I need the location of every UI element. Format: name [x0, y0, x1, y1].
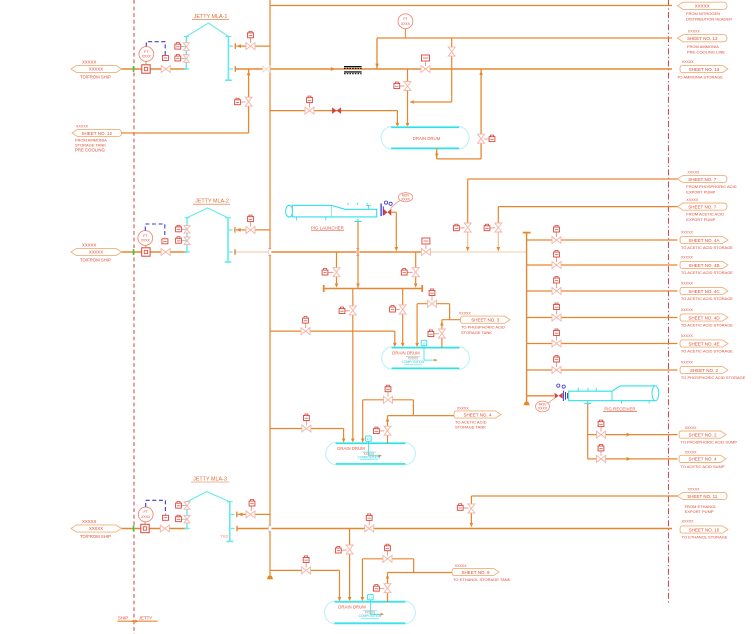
svg-text:SHEET NO. 4: SHEET NO. 4: [464, 412, 492, 417]
svg-text:TO/FROM SHIP: TO/FROM SHIP: [80, 257, 111, 262]
svg-text:XXXXX: XXXXX: [688, 30, 701, 34]
svg-text:XXXXX: XXXXX: [455, 564, 468, 568]
svg-text:SHEET NO. 2: SHEET NO. 2: [689, 432, 717, 437]
svg-text:TO ETHANOL STORAGE TANK: TO ETHANOL STORAGE TANK: [453, 577, 511, 582]
svg-text:XXXXX: XXXXX: [681, 334, 694, 338]
svg-text:DRAIN DRUM: DRAIN DRUM: [337, 446, 365, 451]
svg-text:EXPORT PUMP: EXPORT PUMP: [686, 189, 715, 194]
svg-text:XXXX: XXXX: [142, 55, 152, 59]
svg-text:XXXXX: XXXXX: [695, 4, 710, 9]
svg-text:TO ETHANOL STORAGE: TO ETHANOL STORAGE: [682, 534, 728, 539]
svg-text:TO ACETIC ACID STORAGE: TO ACETIC ACID STORAGE: [681, 296, 733, 301]
svg-text:XXXXX: XXXXX: [685, 426, 698, 430]
svg-text:SHEET NO. 7: SHEET NO. 7: [688, 204, 716, 209]
svg-text:FROM NITROGEN: FROM NITROGEN: [686, 11, 720, 16]
svg-text:DISTRIBUTION HEADER: DISTRIBUTION HEADER: [686, 17, 732, 22]
svg-text:SHEET NO. 9: SHEET NO. 9: [462, 570, 490, 575]
svg-text:FROM PHOSPHORIC ACID: FROM PHOSPHORIC ACID: [686, 184, 736, 189]
svg-text:SHEET NO. 2: SHEET NO. 2: [690, 368, 718, 373]
svg-text:SHEET NO. 4C: SHEET NO. 4C: [688, 289, 720, 294]
svg-text:COMPOSITION: COMPOSITION: [402, 360, 425, 364]
svg-text:XXXX: XXXX: [401, 197, 411, 201]
svg-text:TO PHOSPHORIC ACID STORAGE: TO PHOSPHORIC ACID STORAGE: [681, 375, 746, 380]
svg-text:PRE COOLING: PRE COOLING: [75, 148, 106, 153]
svg-text:TO ACETIC ACID SUMP: TO ACETIC ACID SUMP: [680, 464, 724, 469]
svg-text:SHEET NO. 12: SHEET NO. 12: [82, 131, 113, 136]
svg-text:COMPOSITION: COMPOSITION: [359, 614, 382, 618]
svg-text:SHEET NO. 3: SHEET NO. 3: [471, 318, 499, 323]
svg-text:SHEET NO. 4: SHEET NO. 4: [689, 457, 717, 462]
svg-text:EXPORT PUMP: EXPORT PUMP: [686, 217, 715, 222]
svg-text:LI: LI: [423, 341, 426, 345]
svg-text:XXXXX: XXXXX: [82, 60, 96, 65]
svg-text:TO ACETIC ACID STORAGE: TO ACETIC ACID STORAGE: [681, 349, 733, 354]
svg-text:XXXXX: XXXXX: [459, 312, 472, 316]
svg-text:XXXXX: XXXXX: [82, 243, 96, 248]
svg-text:SHIP: SHIP: [118, 616, 128, 621]
svg-text:XXXXX: XXXXX: [682, 60, 695, 64]
svg-text:XXXXX: XXXXX: [681, 230, 694, 234]
svg-text:SHEET NO. 4D: SHEET NO. 4D: [688, 315, 720, 320]
svg-text:FROM ACETIC ACID: FROM ACETIC ACID: [686, 212, 724, 217]
svg-text:SHEET NO. 11: SHEET NO. 11: [687, 494, 718, 499]
svg-text:XXXXX: XXXXX: [82, 519, 96, 524]
svg-text:TO ACETIC ACID STORAGE: TO ACETIC ACID STORAGE: [681, 270, 733, 275]
svg-text:XXXXX: XXXXX: [76, 125, 89, 129]
svg-text:TO ACETIC ACID STORAGE: TO ACETIC ACID STORAGE: [681, 245, 733, 250]
svg-text:DRAIN DRUM: DRAIN DRUM: [338, 605, 366, 610]
svg-text:TBD: TBD: [221, 534, 229, 539]
svg-text:SHEET NO. 4A: SHEET NO. 4A: [689, 238, 720, 243]
svg-text:DRAIN DRUM: DRAIN DRUM: [392, 351, 420, 356]
svg-text:TO/FROM SHIP: TO/FROM SHIP: [80, 74, 111, 79]
svg-text:PRE-COOLING LINE: PRE-COOLING LINE: [687, 50, 725, 55]
svg-text:SHEET NO. 13: SHEET NO. 13: [687, 36, 718, 41]
svg-text:XXXXX: XXXXX: [685, 451, 698, 455]
svg-text:XXXXX: XXXXX: [681, 281, 694, 285]
svg-text:XXXXX: XXXXX: [687, 171, 700, 175]
svg-text:XXXXX: XXXXX: [89, 526, 103, 531]
svg-text:JETTY MLA-1: JETTY MLA-1: [194, 14, 228, 20]
svg-text:SHEET NO. 4B: SHEET NO. 4B: [689, 263, 720, 268]
svg-text:SHEET NO. 4E: SHEET NO. 4E: [689, 341, 720, 346]
svg-text:STORAGE TANK: STORAGE TANK: [461, 330, 492, 335]
svg-text:XXXXX: XXXXX: [681, 255, 694, 259]
svg-text:XXXXX: XXXXX: [686, 198, 699, 202]
svg-text:TO/FROM SHIP: TO/FROM SHIP: [80, 534, 111, 539]
svg-text:FROM AMMONIA: FROM AMMONIA: [687, 44, 719, 49]
svg-text:STORAGE TANK: STORAGE TANK: [455, 425, 486, 430]
svg-text:XXXXX: XXXXX: [688, 488, 701, 492]
svg-text:TO PHOSPHORIC ACID SUMP: TO PHOSPHORIC ACID SUMP: [680, 440, 737, 445]
svg-text:XXXXX: XXXXX: [89, 67, 103, 72]
svg-text:LI: LI: [369, 596, 372, 600]
svg-text:JETTY MLA-3: JETTY MLA-3: [193, 476, 227, 482]
svg-text:DRAIN DRUM: DRAIN DRUM: [413, 136, 441, 141]
svg-text:EXPORT PUMP: EXPORT PUMP: [685, 509, 714, 514]
svg-text:TO ACETIC ACID STORAGE: TO ACETIC ACID STORAGE: [681, 323, 733, 328]
svg-text:XXXX: XXXX: [538, 407, 548, 411]
svg-text:SHEET NO. 13: SHEET NO. 13: [689, 67, 720, 72]
svg-text:PIG LAUNCHER: PIG LAUNCHER: [311, 225, 344, 230]
svg-text:COMPOSITION: COMPOSITION: [358, 456, 381, 460]
svg-text:XXXXX: XXXXX: [89, 250, 103, 255]
svg-text:FROM ETHANOL: FROM ETHANOL: [685, 504, 718, 509]
svg-text:XXXX: XXXX: [401, 22, 411, 26]
svg-text:XXXXX: XXXXX: [682, 519, 695, 523]
svg-text:XXXX: XXXX: [141, 515, 151, 519]
svg-text:LI: LI: [367, 437, 370, 441]
svg-text:XXXX: XXXX: [141, 239, 151, 243]
svg-text:SHEET NO. 10: SHEET NO. 10: [689, 527, 720, 532]
svg-text:TO AMMONIA STORAGE: TO AMMONIA STORAGE: [677, 75, 723, 80]
svg-text:SHEET NO. 7: SHEET NO. 7: [688, 177, 716, 182]
svg-text:XXXXX: XXXXX: [457, 406, 470, 410]
svg-text:XXXXX: XXXXX: [681, 360, 694, 364]
svg-text:JETTY: JETTY: [139, 616, 152, 621]
svg-text:XXXXX: XXXXX: [681, 308, 694, 312]
svg-text:JETTY MLA-2: JETTY MLA-2: [195, 199, 229, 205]
svg-text:PIG RECEIVER: PIG RECEIVER: [604, 406, 635, 411]
